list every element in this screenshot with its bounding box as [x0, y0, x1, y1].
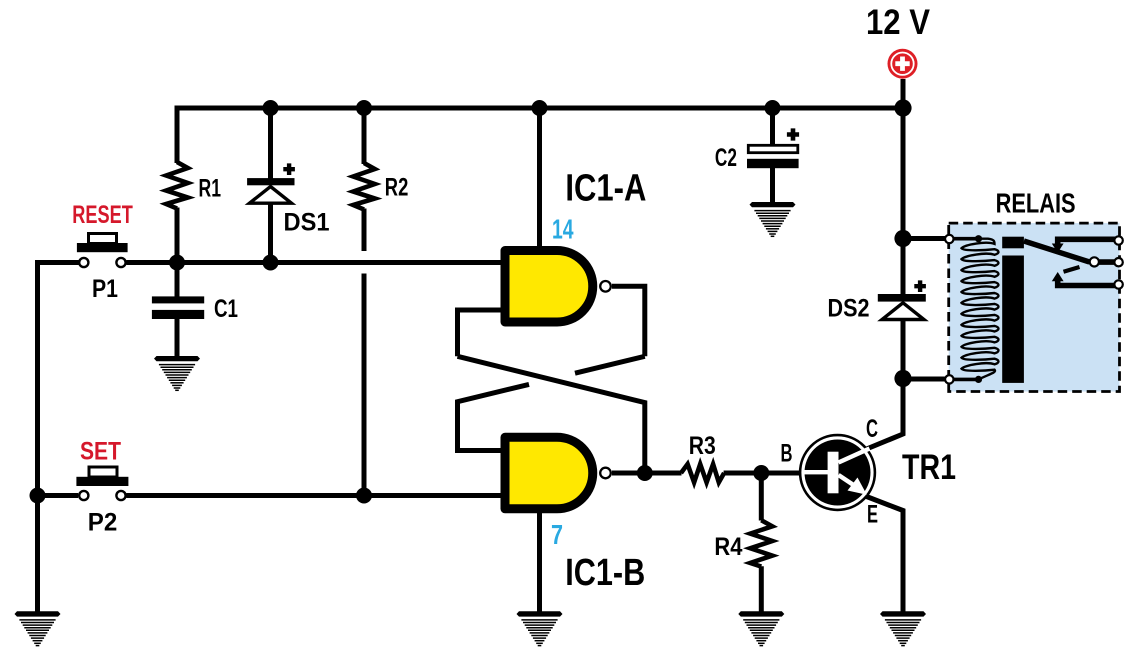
transistor TR1	[800, 435, 875, 510]
supply +12V symbol	[888, 49, 918, 79]
inverter bubble IC1-A	[600, 281, 611, 292]
svg-text:R4: R4	[714, 533, 742, 561]
wire R3 to base node	[724, 471, 799, 476]
wire IC1-A feedback input (from IC1-B output via X)	[458, 310, 504, 356]
svg-text:RELAIS: RELAIS	[996, 188, 1076, 219]
node P1/DS1	[263, 255, 279, 271]
node base/R4	[753, 465, 769, 481]
svg-text:7: 7	[551, 519, 563, 550]
diode DS1	[247, 163, 295, 203]
wire R1 branch bottom	[175, 208, 180, 263]
ground bottom-left rail	[15, 611, 61, 645]
svg-text:IC1-A: IC1-A	[565, 168, 646, 210]
ground TR1 emitter	[880, 611, 926, 645]
wire DS1 branch bottom	[268, 202, 273, 263]
svg-text:14: 14	[552, 214, 574, 245]
wire R4 top	[759, 473, 764, 521]
svg-text:P2: P2	[88, 509, 118, 537]
wire top supply rail	[175, 106, 904, 111]
wire X diagonal continuous (IC1-B out to IC1-A in)	[458, 356, 645, 473]
svg-text:C2: C2	[715, 144, 737, 172]
wire emitter to ground	[867, 497, 904, 612]
wire R2 branch top	[362, 106, 367, 165]
svg-text:R3: R3	[689, 432, 716, 460]
ground R4	[738, 611, 784, 645]
wire P1 row to IC1-A input	[126, 260, 503, 265]
svg-text:12 V: 12 V	[866, 3, 931, 42]
wire P1 row left segment	[38, 263, 79, 612]
relay top contact	[1058, 239, 1119, 245]
wire R2 branch lower (after crossing gap)	[362, 274, 367, 496]
svg-text:P1: P1	[92, 275, 118, 303]
relay common contact	[1094, 259, 1119, 265]
wire collector	[867, 378, 904, 449]
wire P2 row to IC1-B input	[126, 493, 503, 498]
ground C2	[750, 202, 796, 236]
relay armature	[1024, 241, 1090, 262]
resistor R1	[166, 162, 188, 209]
pushbutton P1	[77, 234, 128, 268]
node DS2 top / relay	[894, 230, 911, 247]
wire rail corner down to relay/DS2 column	[901, 79, 906, 296]
node P1/R1/C1	[169, 255, 185, 271]
svg-text:B: B	[781, 440, 793, 468]
relay NO link segment	[1064, 267, 1080, 272]
inverter bubble IC1-B	[600, 468, 611, 479]
capacitor C2 (polarized)	[747, 128, 799, 168]
svg-text:IC1-B: IC1-B	[565, 552, 645, 594]
relay coil wire top	[948, 237, 979, 241]
wire IC1-A output down	[612, 286, 645, 356]
svg-text:R2: R2	[385, 174, 409, 202]
svg-text:E: E	[867, 501, 878, 529]
wire DS1 branch top	[268, 106, 273, 181]
relay box	[949, 223, 1120, 391]
svg-text:R1: R1	[199, 174, 222, 202]
op-amp/gate IC1-B	[505, 437, 593, 509]
op-amp/gate IC1-A	[505, 251, 593, 323]
svg-text:TR1: TR1	[902, 448, 956, 487]
wire C2 to ground	[770, 168, 775, 203]
relay bottom contact	[1058, 279, 1119, 285]
resistor R3	[681, 464, 724, 482]
wire C1 top	[175, 263, 180, 298]
svg-text:C: C	[866, 415, 878, 443]
relay pivot	[1090, 257, 1099, 266]
node P2/R2	[356, 488, 372, 504]
wire C1 to ground	[175, 318, 180, 357]
node DS2 bottom / relay / collector	[894, 370, 911, 387]
relay coil wire bottom	[948, 378, 979, 382]
wire IC1-A pin14 drop	[537, 106, 542, 251]
capacitor C1	[152, 296, 204, 319]
wire R1 branch top	[175, 106, 180, 164]
diode DS2	[878, 280, 926, 319]
svg-text:C1: C1	[214, 295, 238, 323]
wire relay coil bottom connection	[903, 377, 948, 382]
wire DS2 bottom to collector junction	[901, 319, 906, 382]
pushbutton P2	[76, 467, 128, 500]
svg-text:SET: SET	[80, 438, 121, 466]
wire IC1-B pin7 to ground	[537, 510, 542, 612]
node rail/supply	[894, 99, 911, 116]
node rail/pin14	[532, 100, 548, 116]
node rail/R2	[356, 100, 372, 116]
wire R4 bottom to ground	[759, 566, 764, 611]
relay coil	[962, 239, 999, 380]
resistor R4	[750, 520, 772, 566]
ground IC1-B pin7	[517, 611, 563, 645]
wire C2 branch top	[770, 106, 775, 147]
svg-text:DS2: DS2	[828, 295, 870, 323]
node rail/DS1	[263, 100, 279, 116]
node rail/C2	[765, 100, 781, 116]
wire IC1-B output to R3	[612, 471, 682, 476]
wire relay coil top connection	[903, 236, 948, 241]
relay coil end dots	[975, 235, 982, 242]
node left rail / P2	[30, 488, 46, 504]
ground C1	[154, 356, 200, 390]
svg-text:RESET: RESET	[72, 201, 133, 229]
wire X diagonal broken upper segment	[575, 356, 645, 373]
wire R2 branch middle (stops before P1 wire crossing)	[362, 209, 367, 252]
svg-text:DS1: DS1	[284, 209, 330, 237]
wire P2 row left stub	[38, 493, 79, 498]
relay core	[1002, 237, 1024, 249]
node IC1-B out	[637, 465, 653, 481]
wire X diagonal broken lower segment	[458, 384, 530, 450]
resistor R2	[353, 163, 375, 210]
relay terminals	[945, 235, 953, 243]
